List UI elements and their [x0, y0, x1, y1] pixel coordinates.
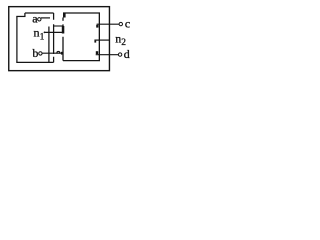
- terminal box n1: bottom edge: [16, 61, 53, 63]
- plug shell top edge: [25, 12, 54, 14]
- hook d: [96, 51, 98, 54]
- socket clump a row: [63, 13, 66, 18]
- terminal box n1: right edge (lower part): [48, 27, 50, 63]
- wire b: [42, 52, 63, 54]
- socket shelf (n1 row): [54, 25, 63, 27]
- wire d: [96, 54, 119, 56]
- terminal box n1: short top edge: [16, 15, 25, 17]
- node dot n1 wire: [44, 32, 46, 34]
- wire n1: [44, 31, 63, 33]
- plug shell right edge (slotted): [53, 13, 55, 62]
- socket clump b row: [61, 52, 63, 55]
- svg-text:d: d: [124, 47, 130, 61]
- terminal box n1: left edge: [16, 16, 18, 62]
- terminal a circle: [38, 18, 41, 21]
- terminal c circle: [119, 22, 122, 25]
- hook arc b row: [57, 51, 60, 53]
- wire n2: [94, 39, 109, 41]
- device box: top, right, bottom edges: [63, 13, 99, 61]
- hook c: [96, 25, 98, 28]
- terminal b circle: [39, 52, 42, 55]
- terminal d circle: [118, 53, 121, 56]
- outer box (equipment case): [9, 7, 110, 71]
- hook n2: [94, 41, 96, 43]
- svg-text:1: 1: [40, 32, 45, 42]
- wire a: [41, 17, 50, 19]
- device box: left edge (slotted): [62, 24, 64, 60]
- wire c: [97, 23, 120, 25]
- plug shell step: [24, 13, 26, 17]
- socket clump n1 row: [62, 26, 65, 34]
- svg-text:b: b: [32, 46, 38, 60]
- svg-text:n: n: [34, 25, 40, 39]
- svg-text:c: c: [125, 16, 130, 30]
